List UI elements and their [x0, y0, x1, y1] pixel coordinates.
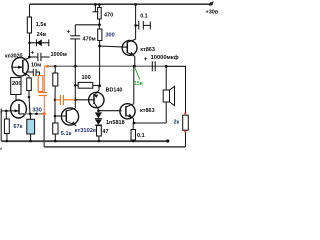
- svg-text:24в: 24в: [37, 32, 47, 38]
- svg-text:0.1: 0.1: [137, 133, 145, 139]
- svg-text:кп302б: кп302б: [5, 52, 23, 59]
- svg-text:10000мкф: 10000мкф: [151, 54, 179, 61]
- svg-text:300: 300: [106, 33, 115, 39]
- svg-text:1,5к: 1,5к: [36, 22, 47, 28]
- svg-text:67к: 67к: [13, 124, 22, 130]
- svg-text:+: +: [67, 29, 71, 36]
- svg-text:470: 470: [104, 13, 113, 19]
- svg-text:BD140: BD140: [106, 87, 123, 93]
- svg-text:2к: 2к: [174, 120, 180, 126]
- svg-text:кт863: кт863: [140, 47, 155, 53]
- svg-text:200: 200: [12, 81, 22, 87]
- svg-text:кт863: кт863: [140, 108, 155, 114]
- svg-text:1000м: 1000м: [51, 52, 67, 58]
- svg-text:5.1к: 5.1к: [61, 131, 72, 137]
- svg-text:47: 47: [102, 129, 108, 135]
- svg-text:кт3102е: кт3102е: [75, 128, 97, 134]
- svg-text:+: +: [144, 56, 148, 63]
- svg-text:330: 330: [32, 108, 42, 114]
- svg-text:+30в: +30в: [206, 10, 219, 16]
- svg-text:470м: 470м: [83, 37, 96, 43]
- svg-text:100: 100: [82, 75, 91, 81]
- svg-text:10м: 10м: [31, 63, 41, 69]
- svg-text:15в: 15в: [134, 81, 143, 87]
- svg-text:+: +: [31, 50, 35, 56]
- svg-text:0.1: 0.1: [140, 14, 148, 20]
- svg-text:1n5818: 1n5818: [106, 120, 125, 126]
